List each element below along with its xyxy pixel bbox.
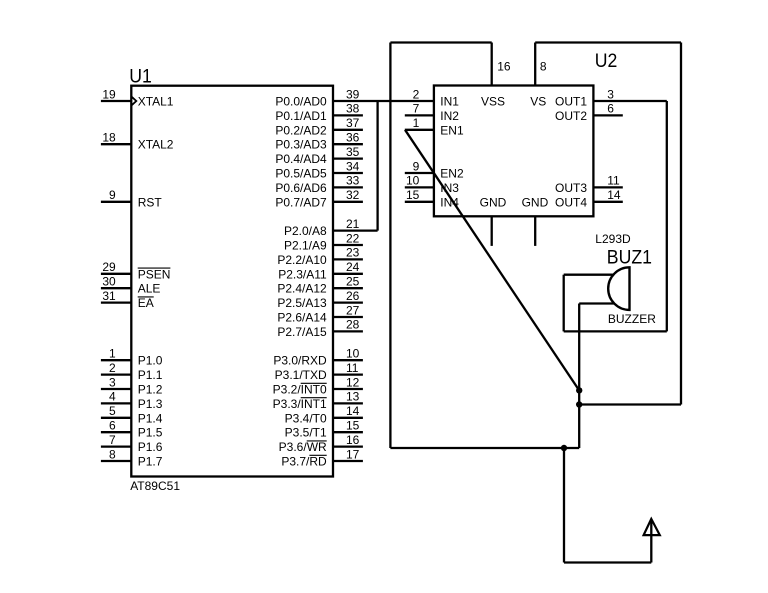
svg-text:36: 36	[346, 131, 360, 145]
svg-text:U1: U1	[129, 65, 152, 87]
svg-text:9: 9	[109, 188, 116, 202]
svg-text:GND: GND	[522, 195, 549, 209]
svg-text:P1.4: P1.4	[138, 411, 163, 425]
svg-text:P2.3/A11: P2.3/A11	[278, 267, 327, 281]
svg-text:P1.0: P1.0	[138, 354, 163, 368]
svg-text:14: 14	[346, 404, 360, 418]
svg-text:37: 37	[346, 116, 360, 130]
svg-text:P0.6/AD6: P0.6/AD6	[275, 181, 327, 195]
svg-text:IN4: IN4	[440, 195, 459, 209]
svg-text:P2.5/A13: P2.5/A13	[277, 296, 327, 310]
svg-text:P3.2/INT0: P3.2/INT0	[273, 383, 327, 397]
svg-text:39: 39	[346, 87, 360, 101]
svg-text:15: 15	[406, 188, 420, 202]
svg-text:14: 14	[607, 188, 621, 202]
svg-text:33: 33	[346, 174, 360, 188]
svg-text:OUT1: OUT1	[555, 95, 587, 109]
svg-text:P3.7/RD: P3.7/RD	[281, 455, 327, 469]
svg-text:IN3: IN3	[440, 181, 459, 195]
svg-text:U2: U2	[595, 49, 618, 71]
svg-text:1: 1	[413, 116, 420, 130]
svg-text:VSS: VSS	[481, 95, 505, 109]
svg-text:P2.6/A14: P2.6/A14	[277, 311, 327, 325]
svg-text:P3.3/INT1: P3.3/INT1	[273, 397, 327, 411]
svg-text:8: 8	[109, 447, 116, 461]
svg-text:28: 28	[346, 318, 360, 332]
svg-text:17: 17	[346, 447, 360, 461]
svg-text:P0.0/AD0: P0.0/AD0	[275, 95, 327, 109]
svg-text:10: 10	[346, 347, 360, 361]
svg-text:P1.2: P1.2	[138, 383, 163, 397]
svg-text:3: 3	[109, 375, 116, 389]
svg-text:P0.1/AD1: P0.1/AD1	[275, 109, 327, 123]
svg-text:P2.4/A12: P2.4/A12	[277, 282, 327, 296]
svg-text:16: 16	[497, 60, 511, 74]
svg-text:BUZZER: BUZZER	[608, 312, 656, 326]
svg-text:11: 11	[346, 361, 359, 375]
svg-text:2: 2	[109, 361, 116, 375]
svg-text:EN2: EN2	[440, 167, 464, 181]
svg-text:ALE: ALE	[138, 282, 161, 296]
svg-text:29: 29	[102, 260, 116, 274]
svg-text:P3.6/WR: P3.6/WR	[279, 440, 327, 454]
svg-text:11: 11	[607, 174, 620, 188]
svg-text:23: 23	[346, 246, 360, 260]
svg-text:32: 32	[346, 188, 360, 202]
svg-text:P1.5: P1.5	[138, 426, 163, 440]
svg-text:OUT2: OUT2	[555, 109, 587, 123]
svg-text:P1.3: P1.3	[138, 397, 163, 411]
svg-text:OUT3: OUT3	[555, 181, 587, 195]
svg-text:7: 7	[413, 102, 420, 116]
svg-text:L293D: L293D	[595, 232, 631, 246]
svg-text:P0.7/AD7: P0.7/AD7	[275, 195, 327, 209]
svg-text:38: 38	[346, 102, 360, 116]
svg-text:27: 27	[346, 303, 360, 317]
svg-text:IN1: IN1	[440, 95, 459, 109]
svg-text:26: 26	[346, 289, 360, 303]
svg-text:P0.5/AD5: P0.5/AD5	[275, 167, 327, 181]
svg-text:EN1: EN1	[440, 123, 464, 137]
svg-text:8: 8	[540, 60, 547, 74]
svg-text:P0.4/AD4: P0.4/AD4	[275, 152, 327, 166]
svg-text:P2.1/A9: P2.1/A9	[284, 239, 327, 253]
svg-text:6: 6	[109, 419, 116, 433]
svg-text:22: 22	[346, 231, 360, 245]
svg-text:P2.7/A15: P2.7/A15	[277, 325, 327, 339]
svg-text:P0.2/AD2: P0.2/AD2	[275, 123, 327, 137]
svg-text:19: 19	[102, 87, 116, 101]
svg-text:P3.4/T0: P3.4/T0	[285, 411, 327, 425]
svg-text:16: 16	[346, 433, 360, 447]
svg-text:P1.1: P1.1	[138, 368, 163, 382]
svg-text:P3.5/T1: P3.5/T1	[285, 426, 327, 440]
svg-text:VS: VS	[530, 95, 546, 109]
svg-text:10: 10	[406, 174, 420, 188]
svg-text:XTAL1: XTAL1	[138, 95, 174, 109]
svg-text:21: 21	[346, 217, 360, 231]
svg-text:BUZ1: BUZ1	[607, 246, 652, 268]
svg-text:5: 5	[109, 404, 116, 418]
svg-text:15: 15	[346, 419, 360, 433]
svg-text:P3.1/TXD: P3.1/TXD	[275, 368, 327, 382]
svg-text:18: 18	[102, 131, 116, 145]
svg-text:34: 34	[346, 159, 360, 173]
svg-text:9: 9	[413, 159, 420, 173]
svg-text:3: 3	[607, 87, 614, 101]
svg-text:P1.7: P1.7	[138, 455, 163, 469]
svg-text:25: 25	[346, 275, 360, 289]
svg-text:2: 2	[413, 87, 420, 101]
svg-text:31: 31	[102, 289, 116, 303]
svg-text:13: 13	[346, 390, 360, 404]
svg-text:AT89C51: AT89C51	[130, 479, 180, 493]
svg-text:P2.2/A10: P2.2/A10	[277, 253, 327, 267]
svg-text:GND: GND	[480, 195, 507, 209]
svg-text:PSEN: PSEN	[138, 267, 171, 281]
svg-text:P2.0/A8: P2.0/A8	[284, 224, 327, 238]
svg-text:4: 4	[109, 390, 116, 404]
svg-text:OUT4: OUT4	[555, 195, 587, 209]
svg-text:EA: EA	[138, 296, 154, 310]
svg-text:IN2: IN2	[440, 109, 459, 123]
svg-text:30: 30	[102, 275, 116, 289]
svg-text:P0.3/AD3: P0.3/AD3	[275, 138, 327, 152]
svg-text:12: 12	[346, 375, 360, 389]
svg-text:XTAL2: XTAL2	[138, 138, 174, 152]
svg-text:6: 6	[607, 102, 614, 116]
svg-text:P3.0/RXD: P3.0/RXD	[273, 354, 327, 368]
svg-text:P1.6: P1.6	[138, 440, 163, 454]
svg-text:24: 24	[346, 260, 360, 274]
svg-text:35: 35	[346, 145, 360, 159]
svg-text:RST: RST	[138, 195, 163, 209]
svg-text:1: 1	[109, 347, 116, 361]
svg-text:7: 7	[109, 433, 116, 447]
